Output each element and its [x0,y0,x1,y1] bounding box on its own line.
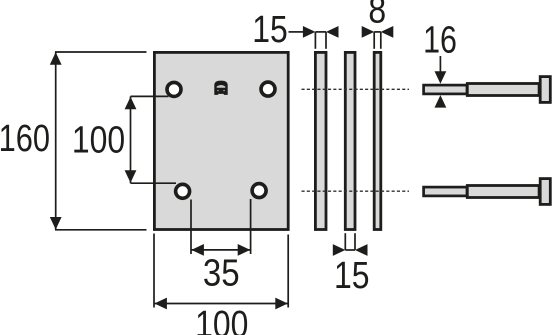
dim 15 top: dimension segment [315,31,326,33]
hole bottom-left [176,184,190,198]
dim 15 bottom: arrow pointing right [333,244,346,256]
bolt 2: head [540,179,550,205]
dim 16: arrow up [435,95,447,108]
dim 160: arrow down [50,217,62,230]
dim 15 top: extension lines [314,32,316,49]
dim 100 left: extension bottom [131,182,177,184]
plate (front view) [154,52,288,229]
bolt 2: shank [467,186,539,198]
dim 160: extension bottom [55,229,147,231]
hole bottom-right [252,184,266,198]
bar 3 (8mm side view) [374,52,381,229]
bolt 1: head [540,77,550,103]
dim 100 bottom: extension right [287,235,289,308]
dim 15 bottom: extension lines [344,233,346,250]
car icon [214,81,227,95]
dim 8: extension lines [373,32,375,49]
dim 35: dimension line [191,249,251,251]
dim 15 top: arrow pointing right [303,26,316,38]
svg-text:160: 160 [0,118,50,160]
bar 2 (15mm side view) [345,52,355,229]
dim 16: arrow down [435,71,447,84]
centerline top (dashed) [302,88,410,90]
bolt 2: threaded shaft [424,187,467,196]
centerline bottom (dashed) [302,190,410,192]
dim 15 bottom: dimension segment [345,249,355,251]
dim 35: extension right [250,199,252,254]
svg-text:35: 35 [203,251,240,294]
dim 100 left: arrow down [125,170,137,183]
dim 15 top: leader from label [289,31,304,33]
dim 8: arrow pointing right [362,26,375,38]
dim 100 left: extension top [131,95,169,97]
dim 100 bottom: extension left [153,234,155,308]
bolt 1: shank [467,84,539,96]
dim 100 left: dimension line [130,96,132,183]
dim 16: leader [439,56,441,73]
svg-text:100: 100 [195,303,248,335]
dim 100 left: arrow up [125,97,137,110]
dim 8: arrow pointing left [381,26,394,38]
svg-text:16: 16 [423,20,457,62]
dim 160: arrow up [50,52,62,65]
dim 15 top: arrow pointing left [326,26,339,38]
bar 1 (15mm side view) [315,52,326,229]
hole top-left [167,82,181,96]
svg-text:8: 8 [368,0,386,31]
bolt 1: threaded shaft [424,85,467,94]
dim 35: arrow right [238,244,251,256]
dim 160: dimension line [55,52,57,230]
dim 160: extension top [55,51,147,53]
svg-text:100: 100 [72,119,125,161]
dim 15 bottom: arrow pointing left [355,244,368,256]
dim 100 bottom: dimension line [154,303,288,305]
svg-text:15: 15 [252,8,288,50]
dim 8: dimension segment [374,31,381,33]
dim 35: arrow left [191,244,204,256]
dim 100 bottom: arrow right [275,298,288,310]
hole top-right [261,82,275,96]
dim 100 bottom: arrow left [154,298,167,310]
dim 35: extension left [190,200,192,255]
svg-text:15: 15 [334,254,370,296]
